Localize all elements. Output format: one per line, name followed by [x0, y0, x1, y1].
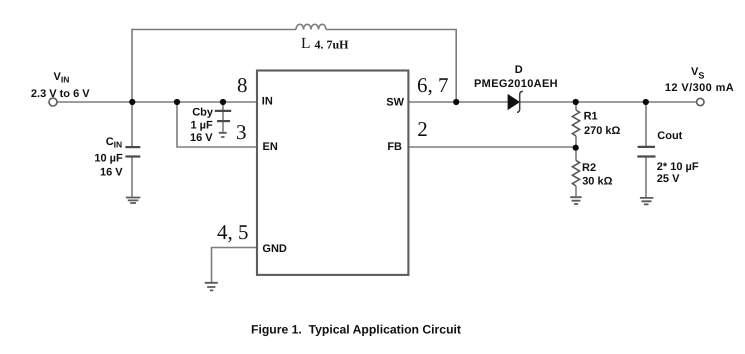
svg-text:6, 7: 6, 7 — [417, 73, 449, 97]
svg-text:EN: EN — [263, 141, 278, 153]
svg-text:PMEG2010AEH: PMEG2010AEH — [474, 78, 558, 90]
svg-text:270 kΩ: 270 kΩ — [584, 125, 621, 137]
svg-text:R2: R2 — [582, 162, 596, 174]
svg-text:IN: IN — [262, 96, 273, 108]
svg-text:2.3 V to 6 V: 2.3 V to 6 V — [31, 88, 90, 100]
svg-text:4. 7uH: 4. 7uH — [315, 37, 350, 51]
svg-text:CIN: CIN — [106, 136, 122, 149]
svg-text:D: D — [515, 64, 523, 76]
svg-text:VS: VS — [691, 66, 704, 81]
svg-text:GND: GND — [262, 243, 287, 255]
svg-text:Cout: Cout — [657, 130, 682, 142]
svg-text:16 V: 16 V — [100, 166, 123, 178]
svg-text:2* 10 µF: 2* 10 µF — [657, 161, 699, 173]
svg-text:8: 8 — [237, 73, 248, 97]
svg-text:1 µF: 1 µF — [191, 120, 214, 132]
svg-text:SW: SW — [386, 97, 404, 109]
svg-text:L: L — [301, 35, 310, 52]
svg-text:30 kΩ: 30 kΩ — [582, 176, 612, 188]
svg-text:10 µF: 10 µF — [94, 152, 123, 164]
svg-text:12 V/300 mA: 12 V/300 mA — [665, 82, 734, 94]
svg-text:Cby: Cby — [192, 107, 214, 119]
svg-text:25 V: 25 V — [657, 173, 680, 185]
svg-text:3: 3 — [236, 120, 247, 144]
svg-text:16 V: 16 V — [190, 132, 213, 144]
svg-text:VIN: VIN — [54, 71, 70, 85]
svg-text:4, 5: 4, 5 — [217, 220, 249, 244]
svg-text:R1: R1 — [584, 110, 598, 122]
svg-text:2: 2 — [417, 117, 428, 141]
svg-text:Figure 1. Typical Application: Figure 1. Typical Application Circuit — [251, 323, 461, 337]
svg-text:FB: FB — [387, 141, 402, 153]
